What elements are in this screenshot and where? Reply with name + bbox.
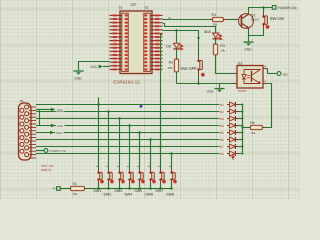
wire bus row 7 to SW7	[160, 35, 162, 170]
push button SW5	[137, 166, 145, 184]
junction diode D3 / common	[242, 118, 244, 120]
wire Q1 collector up to top rail	[249, 8, 273, 15]
junction diode D8 / common	[242, 153, 244, 155]
optocoupler U3	[237, 62, 263, 93]
wire common to R4	[243, 127, 250, 129]
diode D6	[219, 137, 242, 142]
svg-text:D3: D3	[220, 117, 224, 121]
U2 left pins (S1 pins 1-16)	[110, 14, 128, 70]
wire R5 to ground rail	[176, 72, 178, 84]
svg-text:SW4: SW4	[124, 193, 132, 197]
junction bus row 6 / SW6 column	[149, 138, 152, 141]
junction diode D6 / common	[242, 139, 244, 141]
label U2	[131, 2, 137, 7]
junction net B / D9 branch	[175, 29, 177, 31]
wire bottom rail (switch commons)	[87, 188, 171, 190]
ground (below rail, near U3)	[207, 88, 225, 94]
svg-text:USB 5v: USB 5v	[41, 168, 52, 172]
U3 pin 3 stub	[263, 81, 267, 84]
svg-text:10k: 10k	[251, 131, 256, 135]
label SW8	[166, 193, 174, 197]
svg-text:D6: D6	[220, 138, 224, 142]
svg-text:SW2: SW2	[103, 193, 111, 197]
junction SW7 / bottom rail	[159, 187, 162, 190]
svg-text:vcc: vcc	[283, 72, 289, 76]
junction SW-OFF / ground rail	[197, 82, 200, 85]
junction SW5 / bottom rail	[138, 187, 141, 190]
svg-text:330: 330	[168, 66, 173, 70]
wire SW1 to bottom rail	[98, 183, 100, 189]
svg-text:R5: R5	[169, 61, 173, 65]
svg-text:R2: R2	[73, 182, 77, 186]
svg-text:SW-ON: SW-ON	[270, 16, 284, 21]
label SW7	[155, 189, 163, 193]
connector J11 body	[19, 99, 32, 160]
push button SW2	[106, 166, 114, 184]
svg-text:POWER ON: POWER ON	[49, 149, 66, 153]
diode D4	[219, 123, 242, 128]
push button SW6	[148, 166, 156, 184]
wire SW6 to bottom rail	[150, 183, 152, 189]
U3 pin 1 stub	[234, 73, 238, 75]
svg-text:GND: GND	[74, 77, 82, 81]
push button SW-ON	[262, 8, 284, 29]
junction SW3 / bottom rail	[118, 187, 121, 190]
wire VCC-VDD link	[39, 110, 41, 126]
diode D1	[219, 102, 242, 107]
label SW6	[145, 193, 153, 197]
net label VCC +5v	[41, 164, 54, 168]
junction SW4 / bottom rail	[128, 187, 131, 190]
junction SW2 / bottom rail	[107, 187, 110, 190]
transistor Q1 BC547	[239, 13, 260, 28]
svg-text:U2: U2	[131, 2, 137, 7]
svg-text:D5: D5	[220, 131, 224, 135]
wire bus row 1 to SW1	[98, 98, 100, 170]
svg-text:GND: GND	[244, 48, 252, 52]
wire SW7 to bottom rail	[160, 183, 162, 189]
wire U2 pin to R1 (net A)	[163, 17, 211, 19]
svg-text:S1: S1	[119, 6, 123, 10]
ground (left of U2)	[73, 70, 83, 80]
wire SW-OFF to ground rail	[198, 74, 200, 83]
label SW2	[103, 193, 111, 197]
terminal VDD (to U2 left pin)	[90, 65, 109, 69]
J11 left pin circles (1-7)	[20, 108, 24, 153]
wire U2 pin to D15 (net C)	[163, 24, 216, 33]
svg-text:GND: GND	[207, 90, 215, 94]
svg-text:D4: D4	[220, 124, 224, 128]
J11 pin stubs	[29, 107, 36, 158]
wire SW3 to bottom rail	[119, 183, 121, 189]
push button SW8	[169, 166, 177, 184]
svg-text:D7: D7	[220, 145, 224, 149]
LED D15	[204, 30, 222, 39]
wire ground rail (R5, SW-OFF, U3 pin2)	[177, 83, 234, 85]
wire to ground stub (Q1 emitter)	[248, 36, 250, 42]
wire terminal to R2	[60, 188, 69, 190]
wire ground tee	[219, 84, 221, 88]
svg-text:D1: D1	[220, 103, 224, 107]
IC U2 ESP8266-12 module body	[120, 11, 152, 74]
label SW4	[124, 193, 132, 197]
svg-text:U3: U3	[238, 62, 243, 66]
wire D15 to R3	[215, 39, 217, 44]
wire bus row 6 to SW6	[150, 140, 152, 170]
label S1	[119, 6, 123, 10]
diode D8	[219, 151, 242, 156]
label SW3	[114, 189, 122, 193]
resistor R4	[249, 121, 265, 135]
junction diode D4 / common	[242, 125, 244, 127]
svg-text:10k: 10k	[220, 49, 225, 53]
terminal bottom rail (left square)	[53, 187, 61, 191]
svg-text:D15: D15	[204, 30, 211, 34]
terminal VCC (J11 row)	[36, 108, 64, 113]
svg-text:GND: GND	[56, 131, 64, 135]
junction bus row 5 / SW5 column	[138, 131, 141, 134]
header S1 (left pin strip of U2)	[122, 13, 128, 71]
wire GND net to U2 pin (left)	[79, 62, 110, 71]
diode D7	[219, 144, 242, 149]
label S2	[145, 6, 149, 10]
terminal GND (inline bus row 5)	[50, 131, 64, 136]
wire R1 to Q1 base	[228, 19, 238, 21]
svg-text:10k: 10k	[73, 192, 78, 196]
terminal POWER ON (J11 row)	[36, 149, 68, 153]
wire D9 to R5	[176, 50, 178, 59]
terminal vcc	[277, 72, 288, 77]
svg-text:SW6: SW6	[145, 193, 153, 197]
push button SW7	[158, 166, 166, 184]
wire bus row 5 to SW5	[139, 133, 141, 170]
junction bus row 4 / SW4 column	[128, 124, 131, 127]
resistor R1	[210, 13, 228, 26]
resistor R5	[168, 59, 179, 72]
junction diode D7 / common	[242, 146, 244, 148]
svg-text:SW3: SW3	[114, 189, 122, 193]
push button SW1	[96, 166, 104, 184]
label SW5	[134, 189, 142, 193]
wire diode common vertical	[242, 105, 244, 154]
junction bus row 1 / SW1 column	[97, 103, 100, 106]
value label ESP8266-12	[113, 79, 140, 84]
diode D5	[219, 130, 242, 135]
U3 pin 4 stub	[263, 66, 268, 69]
marker origin (blue)	[139, 104, 143, 108]
wire SW4 to bottom rail	[129, 183, 131, 189]
ground (below Q1)	[243, 41, 253, 51]
svg-text:J11: J11	[19, 99, 24, 103]
D8 cathode tail	[232, 154, 235, 159]
wire data bus rows 1-8 (J11 to diode array)	[36, 105, 228, 154]
svg-text:S2: S2	[145, 6, 149, 10]
svg-text:D2: D2	[220, 110, 224, 114]
junction diode D5 / common	[242, 132, 244, 134]
junction bus row 3 / SW3 column	[118, 117, 121, 120]
junction bus row 7 / SW7 column	[159, 145, 162, 148]
wire Q1 emitter / SW-ON bottom rail	[249, 29, 264, 36]
junction on SW-OFF drop	[197, 31, 207, 39]
wire D9 branch down	[176, 31, 178, 43]
junction diode D1 / common	[242, 104, 244, 106]
wire bus row 8 to SW8	[171, 154, 173, 170]
svg-text:R1: R1	[212, 13, 217, 17]
svg-text:SW5: SW5	[134, 189, 142, 193]
svg-text:VCC: VCC	[57, 108, 64, 112]
terminal POWER ON (top right)	[272, 6, 297, 11]
U3 pin 2 stub	[234, 83, 238, 85]
svg-text:D9: D9	[166, 45, 171, 49]
terminal VDD (inline bus row 4)	[51, 124, 64, 129]
diode D3	[219, 116, 242, 121]
wire bus row 3 to SW3	[119, 119, 121, 170]
svg-text:ESP8266-12: ESP8266-12	[113, 79, 140, 84]
svg-text:VDD: VDD	[57, 124, 64, 128]
svg-text:SW-OFF: SW-OFF	[180, 66, 197, 71]
svg-text:R4: R4	[250, 121, 254, 125]
svg-text:SW7: SW7	[155, 189, 163, 193]
diode D2	[219, 109, 242, 114]
resistor R2	[69, 182, 87, 196]
wire bus row 4 to SW4	[129, 126, 131, 170]
wire bus row 2 to SW2	[108, 112, 110, 170]
junction bus row 2 / SW2 column	[107, 110, 110, 113]
header S2 (right pin strip of U2)	[144, 13, 150, 71]
J11 right pin circles (8-15)	[25, 105, 29, 157]
junction bus row 8 / SW8 column	[170, 152, 173, 155]
resistor R3	[213, 44, 225, 55]
wire SW8 to bottom rail	[171, 183, 173, 189]
junction SW1 / bottom rail	[97, 187, 100, 190]
junction SW8 / bottom rail	[170, 187, 173, 190]
wire U3 pin3 down to R4	[265, 84, 272, 128]
net label USB 5v	[41, 168, 52, 172]
junction SW6 / bottom rail	[149, 187, 152, 190]
junction diode D2 / common	[242, 111, 244, 113]
svg-text:PC817: PC817	[238, 89, 247, 93]
junction common / R4	[241, 126, 243, 128]
svg-text:SW1: SW1	[93, 189, 101, 193]
wire SW5 to bottom rail	[139, 183, 141, 189]
wire U3 pin4 to vcc terminal	[268, 69, 278, 74]
svg-text:BC547: BC547	[251, 17, 260, 21]
svg-text:D8: D8	[220, 152, 224, 156]
push button SW4	[127, 166, 135, 184]
svg-text:POWER ON: POWER ON	[278, 6, 297, 10]
wire U2 pin to SW7 column (net D)	[161, 35, 163, 37]
wire U2 pin to D9 / SW-OFF (net B)	[163, 31, 199, 57]
wire SW2 to bottom rail	[108, 183, 110, 189]
svg-text:R3: R3	[220, 44, 224, 48]
push button SW3	[117, 166, 125, 184]
junction top rail / SW-ON	[262, 6, 265, 9]
push button SW-OFF	[180, 56, 204, 76]
label SW1	[93, 189, 101, 193]
svg-text:SW8: SW8	[166, 193, 174, 197]
svg-text:VDD: VDD	[90, 65, 97, 69]
LED D9	[166, 43, 183, 49]
U2 right pins (S2 pins 1-16)	[144, 14, 162, 70]
wire R3 to U3 anode (pin1)	[216, 55, 234, 74]
